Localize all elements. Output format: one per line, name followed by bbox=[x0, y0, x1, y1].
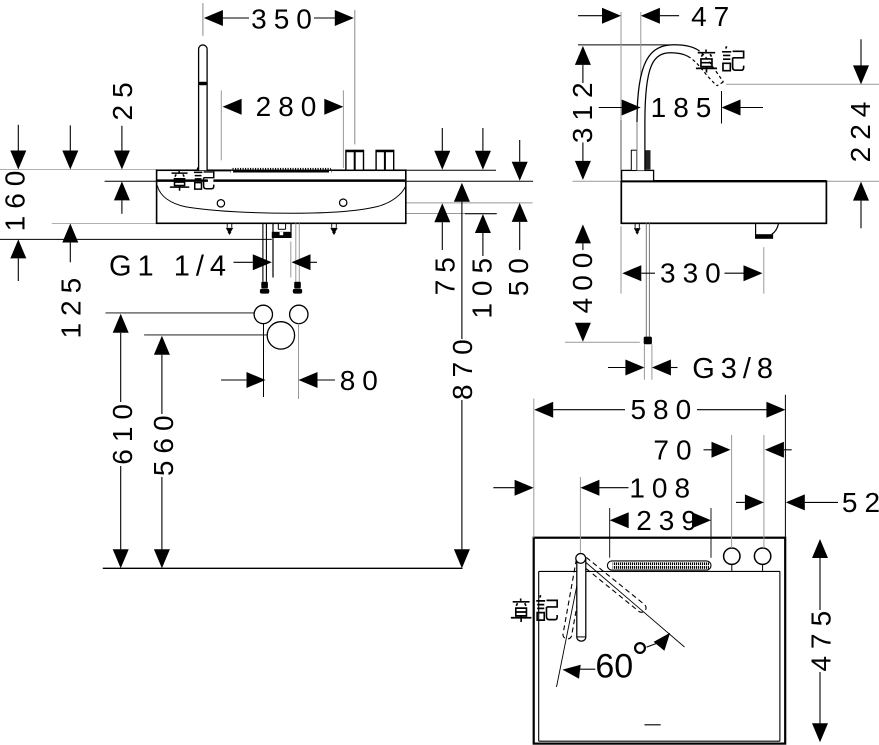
svg-text:105: 105 bbox=[466, 251, 497, 319]
svg-text:52: 52 bbox=[842, 487, 879, 518]
svg-text:125: 125 bbox=[55, 271, 86, 339]
svg-text:108: 108 bbox=[629, 472, 697, 503]
svg-text:330: 330 bbox=[660, 258, 728, 289]
svg-text:75: 75 bbox=[429, 250, 460, 295]
svg-text:70: 70 bbox=[653, 434, 698, 465]
svg-text:80: 80 bbox=[340, 365, 385, 396]
svg-text:400: 400 bbox=[567, 246, 598, 314]
svg-text:50: 50 bbox=[503, 251, 534, 296]
svg-text:25: 25 bbox=[107, 75, 138, 120]
svg-text:185: 185 bbox=[651, 92, 719, 123]
svg-text:560: 560 bbox=[148, 408, 179, 476]
svg-text:224: 224 bbox=[845, 95, 876, 163]
svg-text:312: 312 bbox=[567, 75, 598, 143]
svg-text:G3/8: G3/8 bbox=[692, 353, 779, 385]
svg-text:610: 610 bbox=[107, 397, 138, 465]
svg-text:239: 239 bbox=[636, 505, 704, 536]
svg-text:60: 60 bbox=[595, 648, 633, 686]
svg-text:47: 47 bbox=[691, 1, 736, 32]
svg-text:580: 580 bbox=[630, 394, 698, 425]
svg-text:280: 280 bbox=[256, 91, 324, 122]
svg-text:160: 160 bbox=[0, 164, 30, 232]
svg-text:350: 350 bbox=[251, 3, 319, 34]
svg-text:475: 475 bbox=[806, 604, 837, 672]
svg-text:870: 870 bbox=[447, 332, 478, 400]
svg-text:G1 1/4: G1 1/4 bbox=[109, 250, 232, 282]
